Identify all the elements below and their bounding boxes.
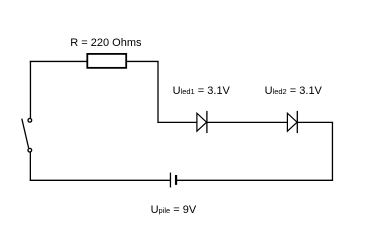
diode D1 cathode bar [206,111,208,133]
wire below switch vertical [29,152,31,180]
switch S1 bottom contact circle [28,148,32,152]
diode D2 triangle [287,113,297,131]
diode D1 triangle [197,113,207,131]
wire above switch vertical [29,61,31,118]
diode D2 cathode bar [296,111,298,133]
wire D2 to right corner [297,121,333,123]
label Uled1 = 3.1V [173,86,230,97]
wire to diode D1 [158,121,197,123]
label Uled2 = 3.1V [265,86,322,97]
wire right-of-resistor vertical [157,61,159,123]
wire right vertical [331,122,333,180]
wire D1 to D2 [207,121,288,123]
label R = 220 Ohms [70,38,141,49]
battery B1 positive plate long thin [169,173,171,188]
wire resistor to corner [126,60,158,62]
resistor R body [87,54,126,68]
wire bottom-right horizontal [176,179,333,181]
wire bottom-left horizontal [30,179,171,181]
wire top-left horizontal [30,60,87,62]
switch S1 top contact circle [28,118,32,122]
label Upile = 9V [151,205,197,216]
switch S1 blade [22,119,29,148]
battery B1 negative plate short thick [175,175,177,185]
